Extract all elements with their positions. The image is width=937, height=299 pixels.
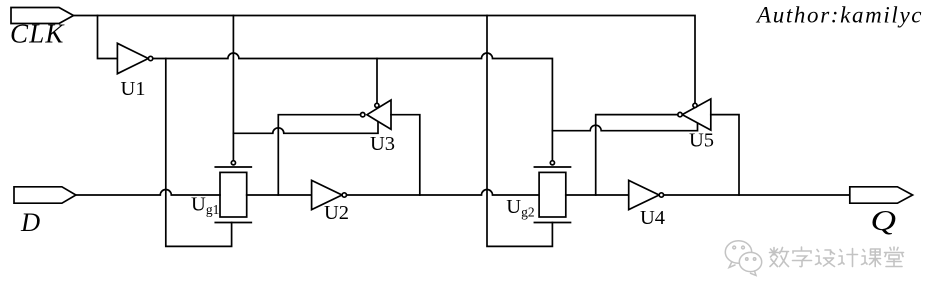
watermark text 数字设计课堂 bbox=[770, 247, 904, 267]
char shu bbox=[770, 248, 789, 267]
wire U3 input from node B bbox=[391, 115, 420, 195]
wire U3 output to node A bbox=[278, 115, 360, 195]
svg-text:U3: U3 bbox=[370, 133, 395, 155]
wire CLK branch to U3 lower enable bbox=[233, 122, 378, 134]
output connector Q bbox=[850, 187, 913, 203]
input connector D bbox=[14, 187, 76, 203]
label Q bbox=[871, 204, 897, 236]
wire CLK top rail bbox=[74, 16, 696, 104]
char she bbox=[816, 250, 835, 267]
svg-text:U2: U2 bbox=[324, 202, 349, 224]
wire node B to Ug2 bbox=[347, 190, 540, 195]
svg-text:Ug2: Ug2 bbox=[506, 196, 534, 220]
wire U5 input from Q bbox=[711, 115, 739, 195]
wire CLKB rail bbox=[153, 53, 553, 161]
wire U5 output to node C bbox=[596, 115, 678, 195]
svg-text:D: D bbox=[20, 207, 40, 237]
svg-text:U1: U1 bbox=[121, 78, 146, 100]
transmission gate Ug1 bbox=[220, 172, 247, 217]
inverter U2 bbox=[312, 180, 342, 209]
char zi bbox=[793, 247, 812, 267]
char tang bbox=[885, 247, 904, 267]
svg-text:Author:kamilyc: Author:kamilyc bbox=[755, 3, 923, 28]
wire node A bbox=[247, 194, 312, 196]
input connector CLK bbox=[11, 8, 74, 24]
wire node C bbox=[566, 194, 629, 196]
svg-text:U4: U4 bbox=[640, 207, 665, 229]
char ji bbox=[839, 249, 858, 267]
wire U4 to Q connector bbox=[664, 194, 850, 196]
wire main D to Ug1 bbox=[76, 190, 220, 195]
transmission gate Ug2 bbox=[539, 172, 566, 217]
wire CLK to Ug2 bottom gate bbox=[487, 16, 552, 247]
inverter U4 bbox=[629, 180, 659, 209]
inverter U1 bbox=[117, 43, 148, 73]
clocked inverter U3 bbox=[367, 100, 391, 129]
svg-text:Ug1: Ug1 bbox=[191, 193, 219, 217]
svg-text:U5: U5 bbox=[689, 130, 714, 152]
wire CLKB to U3 upper enable bbox=[376, 59, 378, 104]
wire CLKB to Ug1 bottom gate bbox=[166, 59, 232, 247]
wire CLKB branch to U5 lower enable bbox=[552, 124, 697, 131]
clocked inverter U5 bbox=[682, 99, 711, 130]
watermark logo bbox=[725, 241, 761, 276]
wire CLK to U1 input bbox=[98, 16, 118, 59]
wire CLK to Ug1 top gate bbox=[232, 16, 234, 161]
svg-text:CLK: CLK bbox=[10, 19, 65, 49]
char ke bbox=[862, 249, 881, 267]
svg-text:Q: Q bbox=[871, 204, 897, 236]
